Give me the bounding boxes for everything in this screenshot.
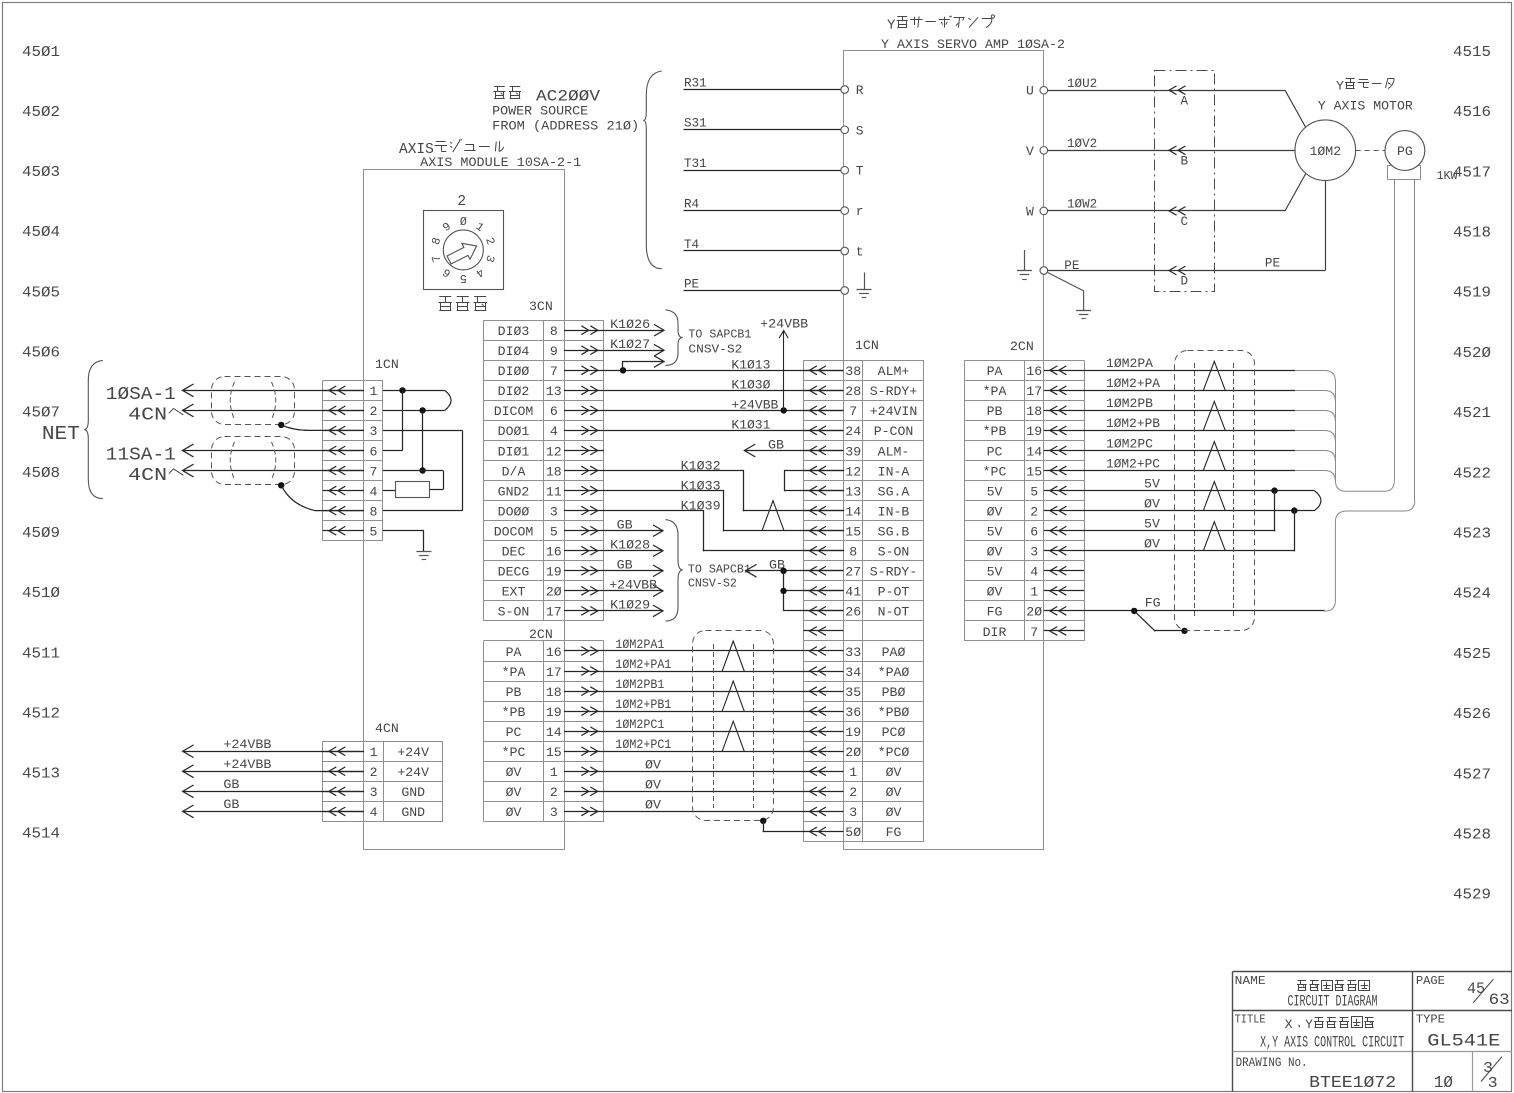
- svg-text:GND: GND: [401, 785, 425, 800]
- svg-text:1ØM2PA1: 1ØM2PA1: [615, 637, 664, 652]
- svg-text:+24VBB: +24VBB: [731, 398, 778, 413]
- svg-text:ØV: ØV: [987, 545, 1003, 560]
- wire 10M2+PC: [1084, 470, 1295, 472]
- junction P-OT: [780, 588, 786, 594]
- wire P-OT stub: [784, 590, 844, 592]
- svg-text:13: 13: [845, 484, 861, 499]
- wire FG pin20: [1084, 610, 1325, 612]
- motor 10M2: [1295, 120, 1356, 181]
- svg-text:45Ø2: 45Ø2: [22, 104, 60, 121]
- wire 10M2+PB: [1084, 430, 1295, 432]
- svg-text:ØV: ØV: [506, 785, 522, 800]
- svg-text:Ø: Ø: [460, 216, 467, 229]
- wire 10U2: [1048, 90, 1285, 92]
- NET shield 2: [212, 437, 295, 485]
- svg-text:17: 17: [546, 605, 562, 620]
- svg-text:*PA: *PA: [983, 384, 1007, 399]
- svg-text:45Ø9: 45Ø9: [22, 525, 60, 542]
- junction 0V: [1291, 507, 1297, 513]
- svg-text:16: 16: [546, 645, 562, 660]
- svg-text:12: 12: [845, 464, 861, 479]
- svg-text:2Ø: 2Ø: [1026, 605, 1042, 620]
- svg-text:4514: 4514: [22, 826, 60, 843]
- label power source AC200V (Japanese): [494, 86, 505, 88]
- svg-text:1ØM2PA: 1ØM2PA: [1106, 356, 1153, 371]
- svg-text:6: 6: [550, 404, 558, 419]
- svg-text:S-ON: S-ON: [498, 605, 530, 620]
- terminal U: [1040, 86, 1048, 94]
- svg-text:PB: PB: [506, 685, 522, 700]
- svg-text:NAME: NAME: [1235, 974, 1266, 988]
- NET shield 1: [212, 377, 295, 425]
- svg-text:DECG: DECG: [498, 565, 530, 580]
- terminal S: [841, 126, 849, 134]
- svg-text:45Ø7: 45Ø7: [22, 405, 60, 422]
- svg-text:S-RDY+: S-RDY+: [870, 384, 918, 399]
- svg-text:ØV: ØV: [1144, 496, 1160, 511]
- wire 10M2PB1 (2CN row 3): [604, 691, 804, 693]
- svg-text:4: 4: [370, 805, 378, 820]
- svg-text:+24V: +24V: [397, 765, 429, 780]
- svg-text:IN-A: IN-A: [878, 464, 910, 479]
- wire NET 11SA-1 pin6: [183, 450, 365, 452]
- svg-text:2Ø: 2Ø: [845, 745, 861, 760]
- svg-text:2: 2: [457, 194, 466, 210]
- wire K1013 DI00 to ALM+: [604, 370, 844, 372]
- svg-text:ØV: ØV: [645, 797, 661, 812]
- wire T31 to servo input: [684, 170, 841, 172]
- wire 10M2PA1 (2CN row 1): [604, 650, 804, 652]
- svg-text:18: 18: [546, 464, 562, 479]
- label axis setting (Japanese): [439, 296, 451, 298]
- svg-text:2CN: 2CN: [529, 627, 553, 642]
- svg-text:1ØM2+PB1: 1ØM2+PB1: [615, 697, 671, 712]
- title block: [1233, 972, 1513, 1092]
- terminal PE out: [1040, 267, 1048, 275]
- motor cable shield box: [1155, 71, 1215, 292]
- svg-text:PCØ: PCØ: [882, 725, 906, 740]
- wire K1030 DI02 to S-RDY+: [604, 390, 844, 392]
- twisted pair marker IN-B/SG.B: [762, 501, 784, 531]
- svg-text:1ØM2PB1: 1ØM2PB1: [615, 677, 664, 692]
- svg-text:ØV: ØV: [987, 585, 1003, 600]
- svg-text:3: 3: [849, 805, 857, 820]
- svg-text:S31: S31: [684, 117, 707, 131]
- wire T4 to servo input: [684, 250, 841, 252]
- wire 10V2: [1048, 150, 1296, 152]
- svg-text:DIØ1: DIØ1: [498, 444, 530, 459]
- svg-text:15: 15: [845, 525, 861, 540]
- svg-text:TO SAPCB1: TO SAPCB1: [688, 563, 751, 577]
- svg-text:8: 8: [849, 545, 857, 560]
- svg-text:2CN: 2CN: [1010, 339, 1034, 354]
- svg-text:DICOM: DICOM: [494, 404, 534, 419]
- terminal R: [841, 86, 849, 94]
- svg-text:8: 8: [369, 504, 377, 519]
- svg-text:K1Ø27: K1Ø27: [610, 337, 650, 352]
- svg-text:1CN: 1CN: [375, 357, 399, 372]
- svg-text:17: 17: [1026, 384, 1042, 399]
- svg-text:63: 63: [1489, 991, 1510, 1009]
- svg-text:GB: GB: [768, 438, 784, 453]
- junction S-RDY-: [780, 568, 786, 574]
- svg-text:*PA: *PA: [502, 665, 526, 680]
- svg-text:K1Ø26: K1Ø26: [610, 317, 650, 332]
- svg-text:R31: R31: [684, 76, 707, 90]
- svg-text:1ØW2: 1ØW2: [1067, 198, 1097, 212]
- svg-text:TYPE: TYPE: [1416, 1013, 1445, 1027]
- twisted pair markers PG cable: [1203, 361, 1225, 390]
- svg-text:7: 7: [369, 464, 377, 479]
- wire 10M2+PC1 (2CN row 6): [604, 751, 804, 753]
- svg-text:1ØSA-1: 1ØSA-1: [106, 384, 176, 405]
- svg-text:IN-B: IN-B: [878, 504, 910, 519]
- svg-text:ØV: ØV: [886, 785, 902, 800]
- wire R4 to servo input: [684, 210, 841, 212]
- wire 10M2+PA: [1084, 390, 1295, 392]
- svg-text:451Ø: 451Ø: [22, 585, 60, 602]
- svg-text:4518: 4518: [1453, 225, 1491, 242]
- svg-text:B: B: [1181, 155, 1189, 169]
- svg-text:17: 17: [546, 665, 562, 680]
- svg-text:A: A: [399, 142, 408, 158]
- svg-text:DRAWING No.: DRAWING No.: [1236, 1055, 1308, 1070]
- terminating resistor: [396, 482, 430, 498]
- svg-text:19: 19: [546, 565, 562, 580]
- svg-text:PC: PC: [506, 725, 522, 740]
- svg-text:3: 3: [1030, 545, 1038, 560]
- svg-text:45Ø6: 45Ø6: [22, 345, 60, 362]
- svg-text:5Ø: 5Ø: [845, 825, 861, 840]
- svg-text:12: 12: [546, 444, 562, 459]
- svg-text:1ØM2+PC: 1ØM2+PC: [1106, 456, 1160, 471]
- svg-text:S-ON: S-ON: [878, 545, 910, 560]
- svg-text:4: 4: [1030, 565, 1038, 580]
- svg-text:2: 2: [849, 785, 857, 800]
- junction +24VBB: [781, 407, 787, 413]
- AXIS module box 10SA-2-1: [364, 170, 565, 850]
- wires DOCOM..S-ON to SAPCB1: [604, 530, 663, 532]
- svg-text:2: 2: [369, 404, 377, 419]
- wire K1032 D/A to IN-B: [604, 470, 744, 472]
- svg-text:FG: FG: [987, 605, 1003, 620]
- svg-text:S-RDY-: S-RDY-: [870, 565, 917, 580]
- PG cable line A: [1394, 179, 1396, 481]
- svg-text:NET: NET: [42, 423, 80, 445]
- svg-text:3: 3: [370, 785, 378, 800]
- ground at servo PE input: [864, 273, 866, 290]
- wire 4CN GB pin3: [183, 791, 364, 793]
- svg-text:4CN: 4CN: [128, 465, 167, 486]
- svg-text:CNSV-S2: CNSV-S2: [688, 343, 742, 357]
- svg-text:1ØM2PC: 1ØM2PC: [1106, 436, 1153, 451]
- svg-text:FG: FG: [1145, 596, 1161, 611]
- encoder cable bundle vertical: [1335, 381, 1337, 480]
- svg-text:5V: 5V: [987, 525, 1003, 540]
- svg-text:FROM (ADDRESS 21Ø): FROM (ADDRESS 21Ø): [492, 118, 639, 133]
- svg-text:4512: 4512: [22, 705, 60, 722]
- svg-text:4529: 4529: [1453, 887, 1491, 904]
- svg-text:DIØ4: DIØ4: [498, 344, 530, 359]
- svg-text:7: 7: [849, 404, 857, 419]
- terminal r: [841, 207, 849, 215]
- svg-text:45: 45: [1467, 980, 1485, 998]
- svg-text:DOCOM: DOCOM: [494, 525, 534, 540]
- svg-text:*PB: *PB: [983, 424, 1007, 439]
- svg-text:2: 2: [370, 765, 378, 780]
- twisted pair markers PA1/PB1/PC1: [722, 641, 744, 671]
- svg-text:5: 5: [550, 525, 558, 540]
- svg-text:AXIS MODULE 10SA-2-1: AXIS MODULE 10SA-2-1: [420, 155, 581, 170]
- svg-text:DIR: DIR: [983, 625, 1007, 640]
- svg-text:39: 39: [845, 444, 861, 459]
- svg-text:36: 36: [845, 705, 861, 720]
- cable trough to PG line B with FG riser: [1325, 500, 1415, 611]
- svg-text:DIØ2: DIØ2: [498, 384, 530, 399]
- svg-text:5V: 5V: [1144, 517, 1160, 532]
- svg-text:2Ø: 2Ø: [546, 585, 562, 600]
- wire 4CN +24VBB pin1: [183, 751, 364, 753]
- wire 10M2PC: [1084, 450, 1295, 452]
- svg-text:N-OT: N-OT: [878, 605, 910, 620]
- wire pin1 to loop: [383, 390, 445, 392]
- svg-text:X: X: [1285, 1017, 1293, 1032]
- svg-text:PAØ: PAØ: [882, 645, 906, 660]
- twisted pair loop 5V/0V: [1314, 491, 1321, 511]
- ground at pin5: [416, 551, 431, 553]
- svg-text:+24V: +24V: [397, 745, 429, 760]
- wire 5V pin6: [1084, 530, 1275, 532]
- svg-text:GND: GND: [401, 805, 425, 820]
- svg-text:DOØØ: DOØØ: [498, 504, 530, 519]
- svg-text:PA: PA: [506, 645, 522, 660]
- svg-text:ØV: ØV: [645, 777, 661, 792]
- svg-text:45Ø5: 45Ø5: [22, 284, 60, 301]
- svg-text:9: 9: [550, 344, 558, 359]
- svg-text:ALM-: ALM-: [878, 444, 910, 459]
- svg-text:r: r: [856, 204, 864, 219]
- svg-text:3: 3: [550, 504, 558, 519]
- brace to SAPCB1 top: [666, 310, 683, 366]
- svg-text:4528: 4528: [1453, 827, 1491, 844]
- svg-text:BTEE1Ø72: BTEE1Ø72: [1309, 1074, 1396, 1093]
- wire N-OT stub: [784, 610, 844, 612]
- wire PE to servo input: [684, 290, 841, 292]
- svg-text:1: 1: [370, 745, 378, 760]
- svg-text:GB: GB: [223, 797, 239, 812]
- svg-text:1: 1: [1030, 585, 1038, 600]
- svg-text:FG: FG: [886, 825, 902, 840]
- svg-text:38: 38: [845, 364, 861, 379]
- junction FG: [1131, 608, 1137, 614]
- svg-text:33: 33: [845, 645, 861, 660]
- svg-text:ØV: ØV: [506, 765, 522, 780]
- svg-text:PAGE: PAGE: [1416, 974, 1445, 988]
- branch to SAPCB1: [622, 362, 624, 371]
- svg-text:4526: 4526: [1453, 706, 1491, 723]
- dashed link motor-PG: [1356, 150, 1385, 152]
- servo amp box 10SA-2: [844, 51, 1044, 850]
- wire pin2-pin7 link: [422, 410, 424, 470]
- svg-text:13: 13: [546, 384, 562, 399]
- wire 0V (2CN row 8): [604, 791, 804, 793]
- wire NET 10SA-1 pin1: [183, 390, 365, 392]
- svg-text:4516: 4516: [1453, 104, 1491, 121]
- svg-text:5V: 5V: [987, 484, 1003, 499]
- svg-text:t: t: [856, 245, 864, 260]
- svg-text:4: 4: [550, 424, 558, 439]
- svg-text:3CN: 3CN: [529, 299, 553, 314]
- wire pin1-pin6 link: [402, 390, 404, 450]
- wire K1039 DO00 to S-ON: [604, 510, 704, 512]
- svg-text:U: U: [1026, 84, 1034, 99]
- svg-text:R: R: [856, 83, 864, 98]
- wire 10W2: [1048, 210, 1285, 212]
- wire 4CN GB pin4: [183, 811, 364, 813]
- terminal t: [841, 247, 849, 255]
- svg-text:1ØM2PC1: 1ØM2PC1: [615, 717, 664, 732]
- NET shield 1 drain to pin3: [278, 422, 284, 428]
- svg-text:5V: 5V: [1144, 476, 1160, 491]
- svg-text:K1Ø13: K1Ø13: [731, 358, 770, 373]
- svg-text:7: 7: [550, 364, 558, 379]
- wire K1026: [604, 330, 664, 332]
- wire K1027: [604, 350, 664, 352]
- svg-text:Y AXIS SERVO AMP 1ØSA-2: Y AXIS SERVO AMP 1ØSA-2: [881, 37, 1065, 52]
- wire 10M2+PB1 (2CN row 4): [604, 711, 804, 713]
- junction pin7: [419, 467, 425, 473]
- svg-text:452Ø: 452Ø: [1453, 345, 1491, 362]
- wire 0V (2CN row 9): [604, 811, 804, 813]
- svg-text:P-CON: P-CON: [874, 424, 914, 439]
- svg-text:K1Ø32: K1Ø32: [681, 459, 721, 474]
- svg-text:1KW: 1KW: [1437, 169, 1459, 183]
- svg-text:4521: 4521: [1453, 405, 1491, 422]
- ground below PE output: [1048, 273, 1084, 311]
- svg-text:CNSV-S2: CNSV-S2: [688, 576, 737, 590]
- wire R31 to servo input: [684, 89, 841, 91]
- svg-text:+24VBB: +24VBB: [223, 757, 271, 772]
- svg-text:34: 34: [845, 665, 861, 680]
- svg-text:1ØU2: 1ØU2: [1067, 77, 1097, 91]
- svg-text:19: 19: [1026, 424, 1042, 439]
- svg-text:C: C: [1181, 215, 1189, 229]
- svg-text:1ØM2: 1ØM2: [1309, 144, 1341, 159]
- svg-text:1ØM2+PA1: 1ØM2+PA1: [615, 657, 671, 672]
- svg-text:5V: 5V: [987, 565, 1003, 580]
- svg-text:*PBØ: *PBØ: [878, 705, 910, 720]
- svg-text:45Ø4: 45Ø4: [22, 224, 60, 241]
- svg-text:1ØV2: 1ØV2: [1067, 137, 1097, 151]
- svg-text:ØV: ØV: [1144, 537, 1160, 552]
- svg-text:A: A: [1181, 94, 1189, 108]
- svg-text:GL541E: GL541E: [1427, 1032, 1500, 1052]
- rotary switch S1 axis setting: [424, 211, 504, 290]
- svg-text:2: 2: [1030, 504, 1038, 519]
- svg-text:D/A: D/A: [502, 464, 526, 479]
- svg-text:1: 1: [849, 765, 857, 780]
- svg-text:3: 3: [550, 805, 558, 820]
- svg-text:EXT: EXT: [502, 585, 526, 600]
- svg-text:PBØ: PBØ: [882, 685, 906, 700]
- svg-text:D: D: [1181, 275, 1189, 289]
- svg-text:4527: 4527: [1453, 766, 1491, 783]
- svg-text:+24VBB: +24VBB: [223, 737, 271, 752]
- junction pin1: [399, 387, 405, 393]
- svg-text:PG: PG: [1397, 144, 1413, 159]
- terminal T: [841, 166, 849, 174]
- svg-text:16: 16: [1026, 364, 1042, 379]
- junction DI00 branch: [620, 367, 626, 373]
- wire pin2 to loop: [383, 410, 445, 412]
- svg-text:27: 27: [845, 565, 861, 580]
- shield arrow D: [1169, 266, 1177, 275]
- svg-text:15: 15: [546, 745, 562, 760]
- terminal V: [1040, 147, 1048, 155]
- svg-text:S: S: [856, 123, 864, 138]
- svg-text:PA: PA: [987, 364, 1003, 379]
- junction 5V: [1271, 487, 1277, 493]
- wire 10M2PC1 (2CN row 5): [604, 731, 804, 733]
- svg-text:4517: 4517: [1453, 164, 1491, 181]
- svg-text:45Ø8: 45Ø8: [22, 465, 60, 482]
- svg-text:11SA-1: 11SA-1: [106, 445, 176, 466]
- svg-text:2: 2: [550, 785, 558, 800]
- svg-text:14: 14: [845, 504, 861, 519]
- FG to shield: [1134, 611, 1155, 631]
- svg-text:4522: 4522: [1453, 465, 1491, 482]
- svg-text:1ØM2+PA: 1ØM2+PA: [1106, 376, 1160, 391]
- svg-text:*PC: *PC: [983, 464, 1007, 479]
- svg-text:DEC: DEC: [502, 545, 526, 560]
- svg-text:ØV: ØV: [987, 504, 1003, 519]
- svg-text:16: 16: [546, 545, 562, 560]
- svg-text:DOØ1: DOØ1: [498, 424, 530, 439]
- junction pin2: [419, 407, 425, 413]
- svg-text:ØV: ØV: [886, 765, 902, 780]
- svg-text:PC: PC: [987, 444, 1003, 459]
- wire S31 to servo input: [684, 129, 841, 131]
- svg-text:1ØM2PB: 1ØM2PB: [1106, 396, 1153, 411]
- svg-text:1ØM2+PB: 1ØM2+PB: [1106, 416, 1160, 431]
- svg-text:24: 24: [845, 424, 861, 439]
- svg-text:11: 11: [546, 484, 562, 499]
- svg-text:4: 4: [369, 484, 377, 499]
- encoder cable shield left: [693, 631, 774, 821]
- svg-text:T4: T4: [684, 238, 699, 252]
- svg-text:K1Ø33: K1Ø33: [681, 479, 721, 494]
- wire NET 4CN pin7: [183, 470, 365, 472]
- wire 0V (2CN row 7): [604, 771, 804, 773]
- svg-text:CIRCUIT DIAGRAM: CIRCUIT DIAGRAM: [1288, 993, 1378, 1011]
- shield arrow A: [1169, 86, 1177, 95]
- wire 10M2PB: [1084, 410, 1295, 412]
- svg-text:5: 5: [1030, 484, 1038, 499]
- svg-text:1CN: 1CN: [855, 338, 879, 353]
- svg-text:14: 14: [546, 725, 562, 740]
- wire 10M2PA: [1084, 370, 1295, 372]
- svg-text:3: 3: [369, 424, 377, 439]
- svg-text:4CN: 4CN: [375, 721, 399, 736]
- svg-text:POWER SOURCE: POWER SOURCE: [492, 103, 588, 118]
- wire pin5 to ground: [383, 530, 424, 532]
- svg-text:PE: PE: [684, 277, 699, 291]
- svg-text:4524: 4524: [1453, 586, 1491, 603]
- wire 5V pin5: [1084, 490, 1314, 492]
- svg-text:X: X: [408, 142, 417, 158]
- svg-text:6: 6: [1030, 525, 1038, 540]
- svg-text:T31: T31: [684, 157, 707, 171]
